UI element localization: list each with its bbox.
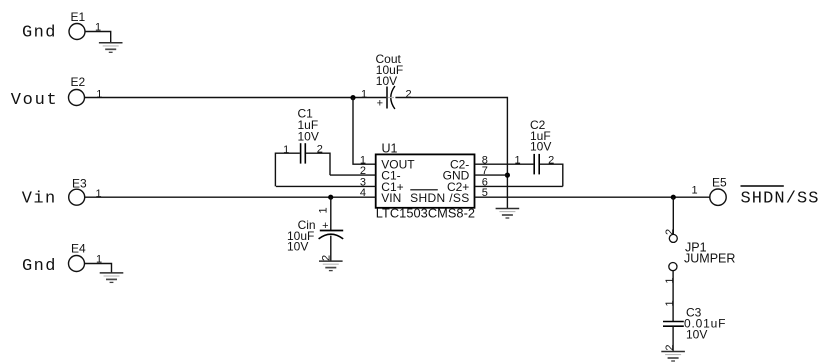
node VOUT junction dot	[350, 95, 355, 100]
svg-text:Vin: Vin	[22, 189, 56, 208]
svg-text:1: 1	[361, 89, 367, 101]
node SHDN junction dot	[671, 195, 676, 200]
svg-text:Gnd: Gnd	[22, 257, 56, 276]
svg-text:10V: 10V	[298, 129, 319, 143]
svg-text:10V: 10V	[686, 328, 707, 342]
svg-text:7: 7	[482, 165, 488, 177]
U1 pin 4 VIN	[360, 187, 401, 205]
svg-text:E2: E2	[71, 75, 86, 89]
wire C1 pin2 to U1 C1-	[306, 153, 330, 175]
IC U1 LTC1503CMS8-2	[376, 142, 475, 221]
capacitor Cout	[361, 52, 412, 110]
svg-text:1: 1	[96, 89, 102, 101]
port E2 Vout	[11, 75, 103, 110]
wire E3 to U1 VIN	[85, 196, 376, 198]
capacitor C2	[514, 118, 554, 174]
U1 pin 5 SHDN/SS	[410, 187, 488, 205]
node GND junction dot (U1 pin7)	[505, 173, 510, 178]
port E5 SHDN/SS	[691, 175, 818, 208]
svg-text:1: 1	[283, 144, 289, 156]
svg-text:SHDN/SS: SHDN/SS	[741, 190, 819, 209]
wire E4 to ground	[85, 264, 112, 273]
wire C2 pin2 to U1 C2+	[540, 164, 563, 186]
svg-text:Gnd: Gnd	[22, 23, 56, 42]
svg-text:2: 2	[664, 344, 676, 350]
svg-text:2: 2	[360, 165, 366, 177]
ground (E4)	[100, 273, 124, 283]
port E4 Gnd	[22, 241, 102, 275]
svg-text:10V: 10V	[376, 74, 397, 88]
svg-text:2: 2	[405, 89, 411, 101]
svg-text:1: 1	[514, 154, 520, 166]
svg-text:1: 1	[664, 300, 676, 306]
svg-text:E5: E5	[712, 175, 727, 189]
U1 pin 1 VOUT	[360, 154, 415, 171]
svg-text:1: 1	[96, 188, 102, 200]
ground (U1 GND rail)	[496, 209, 520, 219]
wire C1 pin1 to U1 C1+	[275, 153, 300, 186]
node VIN junction dot	[328, 195, 333, 200]
port E3 Vin	[22, 176, 102, 208]
svg-text:E3: E3	[72, 176, 87, 190]
wire E2 to Cout plus	[85, 97, 387, 99]
wire E1 to ground	[85, 32, 111, 43]
svg-text:10V: 10V	[530, 140, 551, 154]
svg-text:1: 1	[664, 277, 676, 283]
jumper JP1	[664, 197, 736, 321]
capacitor C1	[283, 107, 323, 164]
svg-text:2: 2	[321, 255, 333, 261]
ground (Cin)	[319, 261, 343, 271]
capacitor Cin	[287, 197, 343, 261]
U1 pin 7 GND	[443, 165, 508, 182]
wire U1 pin5 to E5	[475, 196, 710, 198]
svg-text:10V: 10V	[287, 240, 308, 254]
ground (C3)	[661, 352, 685, 362]
svg-text:E4: E4	[71, 241, 86, 255]
svg-text:SHDN /SS: SHDN /SS	[410, 191, 469, 205]
wire Cout pin2 to GND rail	[395, 98, 507, 209]
U1 pin 8 C2-	[450, 154, 533, 171]
svg-text:1: 1	[318, 207, 330, 213]
svg-text:JUMPER: JUMPER	[684, 252, 735, 266]
ground (E1)	[99, 43, 123, 53]
svg-text:+: +	[377, 98, 383, 110]
svg-text:Vout: Vout	[11, 91, 57, 110]
capacitor C3	[663, 300, 726, 351]
U1 pin 6 C2+	[447, 177, 563, 194]
svg-text:LTC1503CMS8-2: LTC1503CMS8-2	[376, 206, 475, 221]
svg-text:U1: U1	[382, 142, 398, 156]
svg-text:E1: E1	[71, 10, 86, 24]
port E1 Gnd	[22, 10, 101, 43]
svg-text:VIN: VIN	[381, 191, 401, 205]
wire VOUT node down to U1 pin1	[353, 98, 376, 165]
U1 pin 3 C1+	[276, 177, 404, 194]
U1 pin 2 C1-	[330, 165, 401, 182]
svg-text:1: 1	[691, 185, 697, 197]
